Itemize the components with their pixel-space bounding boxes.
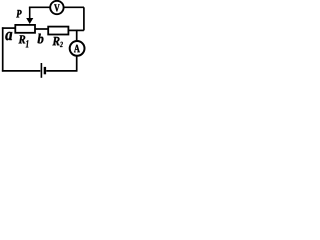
wire: junction node down to ammeter top terminal bbox=[76, 30, 78, 41]
voltmeter U-V (circle) bbox=[50, 1, 63, 14]
label a (left terminal of R1) bbox=[5, 32, 12, 40]
wire: R1 right terminal to R2 left terminal through node b bbox=[35, 28, 48, 30]
ammeter label A bbox=[74, 45, 80, 52]
label R2 bbox=[52, 37, 62, 47]
wire: top-left horizontal from corner to R1 left terminal bbox=[2, 27, 15, 29]
background bbox=[0, 0, 91, 78]
battery cell: short thick electrode (right) bbox=[44, 67, 46, 74]
wire: bottom-right horizontal from battery positive to ammeter leg bbox=[46, 70, 77, 72]
ammeter U-A (circle) bbox=[70, 41, 85, 56]
wire: bottom-left horizontal from corner to battery bbox=[2, 70, 40, 72]
battery cell: long thin electrode (left) bbox=[40, 63, 42, 78]
resistor R2 (box) bbox=[48, 27, 68, 35]
voltmeter label V bbox=[54, 4, 59, 11]
label b (right terminal of R1) bbox=[38, 34, 44, 44]
wire: horizontal back left into junction node bbox=[77, 29, 84, 31]
label R1 bbox=[19, 35, 29, 47]
potentiometer wiper arrowhead pointing onto R1 bbox=[26, 18, 33, 24]
wire: R2 right terminal to junction node bbox=[68, 29, 77, 31]
wire: wiper corner to voltmeter left terminal bbox=[29, 6, 50, 8]
wire: ammeter bottom terminal down to bottom wire bbox=[76, 56, 78, 71]
label P (wiper) bbox=[16, 10, 21, 17]
resistor R1 (box, wiper slides on it) bbox=[15, 25, 35, 33]
wire: left vertical from node a corner down to bottom-left corner bbox=[2, 27, 4, 71]
wire: voltmeter right terminal to top-right corner bbox=[64, 6, 85, 8]
potentiometer wiper shaft (vertical from top wire) bbox=[29, 7, 31, 18]
wire: right vertical down from top-right corner bbox=[83, 7, 85, 30]
